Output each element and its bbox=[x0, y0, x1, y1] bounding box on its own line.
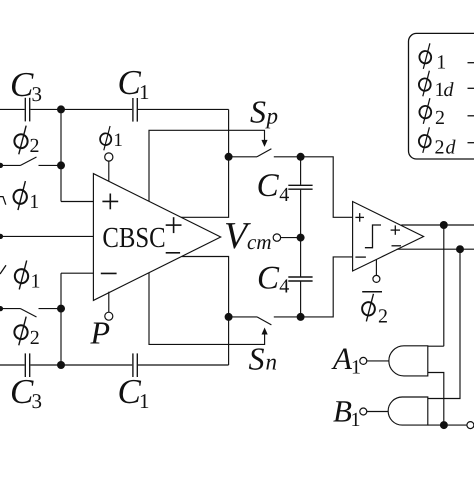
wire C1 to output corner bbox=[138, 108, 229, 110]
node dot Sp right bbox=[297, 153, 305, 161]
wire C4 bottom to node bbox=[300, 282, 302, 317]
label Vcm bbox=[224, 215, 272, 257]
terminal halfdot in3 bbox=[0, 234, 3, 239]
control line to switch Sp bbox=[149, 130, 265, 201]
label C3 bottom bbox=[10, 372, 42, 413]
wire C3 to node bbox=[30, 108, 132, 110]
node dot bottom C junction bbox=[57, 361, 65, 369]
svg-text:C: C bbox=[10, 65, 34, 104]
svg-text:P: P bbox=[90, 315, 111, 351]
label Sn bbox=[249, 341, 278, 377]
svg-text:S: S bbox=[250, 94, 266, 130]
svg-text:C: C bbox=[118, 372, 142, 411]
svg-text:C: C bbox=[118, 63, 142, 102]
label phi2 top-left bbox=[13, 126, 39, 157]
comparator - input sign bbox=[355, 256, 366, 258]
wire B1 bbox=[367, 411, 388, 413]
label Sp bbox=[250, 94, 278, 130]
svg-text:1: 1 bbox=[29, 191, 39, 213]
label legend phi1d bbox=[418, 71, 454, 101]
svg-text:C: C bbox=[257, 168, 280, 204]
node dot top C junction bbox=[57, 105, 65, 113]
label phi2 bottom-left bbox=[13, 317, 39, 349]
label legend phi2 bbox=[419, 98, 445, 129]
capacitor C4 (bottom) bbox=[288, 277, 312, 281]
terminal X bbox=[467, 422, 474, 429]
legend waveform stub phi1 bbox=[468, 62, 474, 64]
wire to CBSC + input bbox=[61, 201, 93, 203]
label C1 bottom bbox=[118, 372, 150, 413]
legend box bbox=[409, 33, 474, 159]
gate U4 output rail bbox=[428, 424, 467, 426]
svg-text:1: 1 bbox=[113, 130, 123, 151]
wire between bottom caps bbox=[30, 364, 132, 366]
wire comparator - output bbox=[397, 248, 474, 250]
node dot phi2 bottom bbox=[57, 305, 65, 313]
terminal halfdot in4 bbox=[0, 306, 3, 311]
wire mid input bbox=[0, 235, 93, 237]
CBSC - output sign bbox=[166, 252, 180, 254]
switch phi2 top bbox=[0, 164, 21, 166]
svg-text:d: d bbox=[444, 79, 455, 101]
overbar of phi2 bbox=[362, 291, 382, 293]
wire comp- down to gate U4 bbox=[428, 249, 460, 398]
wire top input bbox=[0, 108, 25, 110]
svg-text:1: 1 bbox=[436, 52, 446, 74]
switch Sn bbox=[229, 316, 257, 318]
svg-text:4: 4 bbox=[279, 184, 289, 206]
svg-text:1: 1 bbox=[351, 409, 361, 431]
switch phi2 bottom bbox=[0, 308, 21, 310]
wire CBSC + output bbox=[181, 109, 228, 217]
label phi2 bar (comparator clock) bbox=[361, 294, 388, 328]
svg-text:CBSC: CBSC bbox=[102, 222, 165, 254]
svg-text:1: 1 bbox=[139, 80, 150, 104]
svg-text:n: n bbox=[266, 350, 278, 375]
wire bottom rail bbox=[0, 364, 25, 366]
wire bottom to feedback corner bbox=[138, 364, 229, 366]
comparator + input sign bbox=[355, 213, 364, 222]
capacitor C3 (top) bbox=[25, 98, 29, 122]
comparator clock terminal bbox=[375, 259, 377, 275]
Vcm terminal wire bbox=[281, 237, 301, 239]
comparator U2 bbox=[353, 202, 424, 272]
capacitor C1 (bottom) bbox=[133, 353, 137, 377]
label phi1 annotation top bbox=[13, 181, 40, 213]
svg-text:A: A bbox=[331, 341, 353, 376]
annotation mark bottom bbox=[0, 265, 6, 274]
wire CBSC - output bbox=[182, 257, 229, 366]
svg-text:1: 1 bbox=[31, 271, 41, 293]
svg-text:2: 2 bbox=[30, 135, 40, 157]
switch Sp bbox=[229, 156, 257, 158]
svg-text:4: 4 bbox=[279, 276, 289, 298]
node dot comp - out bbox=[456, 245, 464, 253]
legend waveform stub phi2d bbox=[468, 142, 474, 144]
svg-text:B: B bbox=[333, 394, 352, 429]
svg-text:C: C bbox=[257, 260, 280, 296]
CBSC + input sign bbox=[102, 194, 118, 210]
and-gate U4 bbox=[388, 397, 428, 425]
wire between C4s bbox=[300, 190, 302, 277]
svg-text:2: 2 bbox=[435, 107, 445, 129]
svg-text:1: 1 bbox=[139, 389, 150, 413]
svg-text:2: 2 bbox=[30, 327, 40, 349]
comparator - output sign bbox=[392, 245, 402, 247]
wire Sp node to comparator + bbox=[301, 157, 353, 218]
gate U3 top input wire bbox=[428, 345, 444, 347]
arrowhead Sn control bbox=[262, 328, 268, 335]
svg-text:3: 3 bbox=[32, 82, 43, 106]
wire Sn node to comparator - bbox=[301, 257, 353, 317]
annotation mark top bbox=[0, 197, 6, 205]
capacitor C3 (bottom) bbox=[25, 353, 29, 377]
svg-text:2: 2 bbox=[378, 306, 388, 328]
label legend phi2d bbox=[418, 127, 456, 158]
CBSC - input sign bbox=[101, 272, 117, 274]
svg-text:cm: cm bbox=[247, 230, 272, 254]
capacitor C4 (top) bbox=[288, 185, 312, 189]
svg-text:C: C bbox=[10, 372, 34, 411]
label C4 bottom bbox=[257, 260, 289, 297]
label C3 top bbox=[10, 65, 42, 106]
label A1 bbox=[331, 341, 361, 379]
svg-text:3: 3 bbox=[32, 389, 43, 413]
comparator + output sign bbox=[391, 225, 400, 234]
node dot Sp left bbox=[225, 153, 233, 161]
node dot gate rail bbox=[440, 421, 448, 429]
node dot comp + out bbox=[440, 221, 448, 229]
node dot Sn left bbox=[225, 313, 233, 321]
label phi1 annotation bottom bbox=[14, 260, 41, 292]
control line to switch Sn bbox=[149, 273, 265, 345]
label phi1 terminal bbox=[99, 126, 123, 151]
wire A1 bbox=[367, 360, 389, 362]
terminal halfdot in2 bbox=[0, 163, 3, 168]
op-amp CBSC block bbox=[93, 174, 220, 301]
legend waveform stub phi2 bbox=[468, 115, 474, 117]
arrowhead Sp control bbox=[261, 140, 267, 147]
svg-text:p: p bbox=[265, 104, 279, 129]
capacitor C1 (top) bbox=[133, 98, 137, 122]
node dot Sn right bbox=[297, 313, 305, 321]
svg-text:d: d bbox=[446, 136, 457, 158]
wire vertical x61 bottom bbox=[60, 273, 62, 365]
P terminal stub on CBSC bbox=[108, 292, 110, 313]
label B1 bbox=[333, 394, 361, 432]
node dot Vcm bbox=[297, 234, 305, 242]
gate U3 bottom input wire bbox=[428, 373, 444, 426]
svg-text:2: 2 bbox=[435, 136, 445, 158]
svg-text:S: S bbox=[249, 341, 265, 377]
legend waveform stub phi1d bbox=[468, 87, 474, 89]
CBSC + output sign bbox=[166, 217, 182, 233]
phi1 terminal stub on CBSC bbox=[108, 161, 110, 181]
wire to CBSC - input bbox=[61, 272, 93, 274]
label legend phi1 bbox=[419, 43, 447, 73]
node dot phi2 top bbox=[57, 161, 65, 169]
wire C4 chain vertical bbox=[300, 157, 302, 185]
label C4 top bbox=[257, 168, 290, 206]
wire comparator + output bbox=[401, 224, 474, 226]
wire vertical x61 top bbox=[60, 109, 62, 201]
comparator hysteresis symbol bbox=[365, 225, 381, 248]
label C1 top bbox=[118, 63, 150, 104]
svg-text:1: 1 bbox=[351, 357, 361, 379]
wire comp+ down to gate U3 bbox=[443, 225, 445, 346]
and-gate U3 bbox=[389, 346, 428, 376]
